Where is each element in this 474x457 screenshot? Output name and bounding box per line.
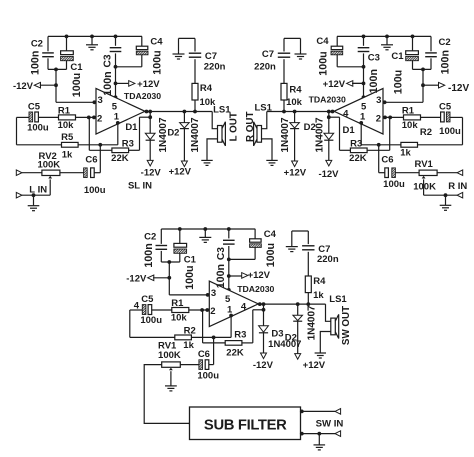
- svg-text:LS1: LS1: [329, 294, 347, 305]
- capacitor C5 right 100u input electrolytic: [421, 112, 451, 122]
- svg-text:3: 3: [211, 288, 216, 299]
- svg-text:R IN: R IN: [448, 181, 467, 192]
- power arrow +12V left: [129, 81, 135, 87]
- svg-text:1: 1: [360, 112, 366, 123]
- wire right R5 to pin1 column: [361, 123, 401, 145]
- svg-text:2: 2: [210, 306, 215, 317]
- junction SW IN upper: [300, 410, 304, 414]
- svg-text:C3: C3: [103, 54, 114, 67]
- svg-text:4: 4: [343, 108, 349, 119]
- svg-text:100u: 100u: [393, 70, 405, 94]
- svg-text:-12V: -12V: [126, 274, 147, 285]
- wire right feedback from output: [329, 112, 351, 151]
- junction sub R5/C6 node: [212, 336, 216, 340]
- svg-text:LS1: LS1: [254, 103, 272, 114]
- diode D1 right 1N4007 to -12V: [324, 117, 334, 166]
- input terminal right upper: [457, 170, 463, 176]
- ground SW IN: [318, 434, 320, 445]
- svg-text:C6: C6: [381, 154, 393, 165]
- capacitor C7 sub 220n with ground: [292, 231, 315, 276]
- junction right -12V tap: [421, 83, 425, 87]
- junction sub feedback node: [262, 308, 266, 312]
- svg-text:C5: C5: [28, 102, 41, 113]
- svg-text:100n: 100n: [102, 71, 114, 95]
- op-amp U left TDA2030 triangle: [96, 89, 145, 135]
- junction right diode D2 column: [293, 110, 297, 114]
- junction sub -12V tap: [167, 276, 171, 280]
- svg-text:TDA2030: TDA2030: [237, 284, 274, 294]
- svg-text:5: 5: [225, 294, 231, 305]
- ground right supply mid rail: [381, 36, 393, 49]
- svg-text:SW IN: SW IN: [316, 418, 344, 429]
- svg-text:100K: 100K: [413, 181, 436, 192]
- svg-text:TDA2030: TDA2030: [309, 95, 346, 105]
- wire right output node: [267, 111, 334, 113]
- input terminal left upper: [16, 170, 22, 176]
- capacitor C3 sub 100n: [223, 229, 235, 290]
- capacitor C2 left 100n: [42, 36, 54, 69]
- ground right C7: [295, 52, 307, 59]
- svg-text:3: 3: [98, 95, 103, 106]
- speaker LS1 right: [254, 112, 272, 161]
- svg-text:D1: D1: [343, 125, 356, 136]
- svg-text:C5: C5: [141, 294, 154, 305]
- wire left output node: [145, 111, 212, 113]
- terminal SW IN upper: [335, 409, 341, 415]
- svg-text:220n: 220n: [317, 254, 339, 265]
- wire sub positive rail top: [161, 228, 255, 230]
- svg-text:100n: 100n: [368, 69, 380, 93]
- junction sub pin2: [200, 308, 204, 312]
- wiper RV2 left: [48, 176, 52, 179]
- wire sub R5 to pin1 column: [191, 316, 231, 338]
- ground sub supply mid rail: [199, 229, 211, 242]
- svg-text:100K: 100K: [37, 160, 60, 171]
- svg-text:220n: 220n: [204, 61, 226, 72]
- wire right +12V branch: [351, 82, 364, 84]
- svg-text:100n: 100n: [143, 243, 155, 267]
- input terminal right lower: [457, 192, 463, 198]
- svg-text:4: 4: [134, 301, 140, 312]
- wire sub filter to RV1: [144, 365, 189, 424]
- junction left pin3 entry: [93, 100, 97, 104]
- svg-text:2: 2: [376, 113, 381, 124]
- svg-text:R4: R4: [200, 83, 213, 94]
- svg-text:-12V: -12V: [141, 168, 162, 179]
- svg-text:R4: R4: [289, 84, 302, 95]
- junction left input ground: [32, 193, 36, 197]
- svg-text:C2: C2: [31, 39, 43, 50]
- svg-text:D2: D2: [285, 332, 297, 343]
- diode D1 sub 1N4007 to -12V: [259, 310, 269, 359]
- junction sub C3/C4 join: [227, 258, 231, 262]
- svg-text:1N4007: 1N4007: [307, 305, 318, 340]
- svg-text:100u: 100u: [140, 315, 162, 326]
- svg-text:100K: 100K: [158, 350, 181, 361]
- svg-text:100u: 100u: [265, 243, 277, 267]
- svg-text:+12V: +12V: [169, 167, 192, 178]
- svg-text:1k: 1k: [62, 149, 73, 160]
- wire sub R3 to inverting input: [203, 310, 226, 343]
- wire left negative rail drop to pin3: [56, 69, 96, 102]
- svg-text:1k: 1k: [183, 340, 194, 351]
- svg-text:1N4007: 1N4007: [158, 117, 169, 152]
- junction sub C1 top rail: [178, 227, 182, 231]
- junction left pin1 on op-amp: [116, 121, 120, 125]
- svg-text:C3: C3: [368, 53, 380, 64]
- capacitor C1 left 100u electrolytic: [61, 36, 74, 69]
- svg-text:C6: C6: [85, 154, 97, 165]
- svg-text:100u: 100u: [439, 126, 461, 137]
- resistor R5 right 1k: [401, 142, 418, 147]
- junction sub filter output left: [189, 422, 193, 426]
- svg-text:3: 3: [376, 95, 381, 106]
- wire sub pin2 input: [189, 309, 210, 311]
- svg-text:R4: R4: [313, 276, 326, 287]
- wire sub feedback from output: [242, 304, 264, 343]
- junction left R4 bottom: [193, 110, 197, 114]
- potentiometer RV left 100K: [42, 170, 60, 175]
- junction right output at op-amp: [331, 110, 335, 114]
- junction right pin2: [388, 116, 392, 120]
- junction sub C2/C1 bottom: [167, 260, 171, 264]
- capacitor C7 right 220n with ground: [278, 38, 301, 83]
- svg-text:RV1: RV1: [415, 159, 434, 170]
- svg-text:R2: R2: [184, 325, 196, 336]
- wire sub negative rail drop to pin3: [169, 262, 209, 295]
- wire left positive rail top: [48, 35, 142, 37]
- svg-text:100u: 100u: [184, 265, 196, 289]
- svg-text:-12V: -12V: [448, 83, 469, 94]
- wire right negative rail drop to pin3: [384, 69, 424, 102]
- diode D2 left 1N4007 to +12V: [180, 112, 190, 167]
- capacitor C3 right 100n: [358, 36, 370, 97]
- junction right C3/C4 join: [362, 65, 366, 69]
- op-amp U right TDA2030 triangle: [334, 89, 383, 135]
- svg-text:100u: 100u: [84, 185, 106, 196]
- svg-text:C1: C1: [391, 51, 404, 62]
- resistor R1 left 10k: [59, 115, 76, 120]
- svg-text:-12V: -12V: [13, 81, 34, 92]
- capacitor C3 left 100n: [110, 36, 122, 97]
- potentiometer RV1 sub 100K: [162, 362, 181, 367]
- ground right input: [445, 195, 447, 205]
- junction left ground tap on rail: [90, 35, 94, 39]
- wire SW IN upper: [301, 410, 336, 412]
- svg-text:4: 4: [241, 301, 247, 312]
- junction sub R4 bottom: [306, 302, 310, 306]
- svg-text:10k: 10k: [58, 120, 75, 131]
- wiper RV1 right: [422, 176, 426, 179]
- resistor R3 left 22K: [112, 148, 129, 153]
- wire right C6 column: [379, 145, 385, 173]
- resistor R1 right 10k: [404, 115, 421, 120]
- svg-text:D1: D1: [125, 122, 138, 133]
- capacitor C2 sub 100n: [156, 229, 168, 262]
- svg-text:C4: C4: [264, 229, 277, 240]
- svg-text:R1: R1: [171, 298, 184, 309]
- wire sub output node: [258, 303, 325, 305]
- junction left output at op-amp: [145, 110, 149, 114]
- terminal SW IN lower: [335, 431, 341, 437]
- junction right ground tap on rail: [385, 35, 389, 39]
- svg-text:D2: D2: [167, 128, 179, 139]
- svg-text:SW OUT: SW OUT: [341, 306, 352, 345]
- resistor R3 sub 22K: [225, 341, 242, 346]
- capacitor C7 left 220n with ground: [179, 38, 202, 83]
- junction sub output at op-amp: [258, 302, 262, 306]
- wire left C5 loop to R5: [17, 117, 62, 144]
- svg-text:C5: C5: [439, 102, 452, 113]
- diode D2 right 1N4007 to +12V: [290, 112, 300, 167]
- junction right pin3 entry: [383, 100, 387, 104]
- svg-text:1: 1: [114, 112, 120, 123]
- op-amp U sub TDA2030 triangle: [209, 281, 258, 327]
- capacitor C2 right 100n: [425, 36, 437, 69]
- svg-text:+12V: +12V: [303, 360, 326, 371]
- svg-text:+12V: +12V: [248, 270, 271, 281]
- svg-text:SL IN: SL IN: [128, 181, 152, 192]
- svg-text:1N4007: 1N4007: [280, 117, 291, 152]
- svg-text:SUB FILTER: SUB FILTER: [204, 418, 287, 434]
- wire right positive rail top: [337, 35, 431, 37]
- wire left C6 column: [94, 145, 100, 173]
- svg-text:C6: C6: [198, 349, 210, 360]
- junction SW IN ground: [317, 432, 321, 436]
- junction right input ground: [444, 193, 448, 197]
- junction right pin1 on op-amp: [359, 121, 363, 125]
- svg-text:C3: C3: [216, 247, 227, 260]
- resistor R4 right: [281, 83, 287, 111]
- svg-text:L IN: L IN: [29, 184, 47, 195]
- svg-text:10k: 10k: [171, 313, 188, 324]
- svg-text:C2: C2: [144, 231, 156, 242]
- ground sub C7: [286, 245, 298, 252]
- junction right R5/C6 node: [377, 143, 381, 147]
- junction right C1 top rail: [411, 35, 415, 39]
- junction left C3 top rail: [114, 35, 118, 39]
- wire left feedback from output: [129, 112, 151, 151]
- junction sub pin3 entry: [206, 293, 210, 297]
- svg-text:22K: 22K: [349, 153, 367, 164]
- wire sub C5 loop to R5: [130, 310, 175, 337]
- capacitor C5 sub 100u input electrolytic: [142, 305, 172, 315]
- svg-text:R3: R3: [234, 330, 246, 341]
- svg-text:-12V: -12V: [253, 360, 274, 371]
- svg-text:220n: 220n: [254, 61, 276, 72]
- wire SW IN lower: [301, 433, 336, 435]
- capacitor C6 left 100u electrolytic: [60, 168, 94, 178]
- wire left R3 to inverting input: [89, 117, 112, 150]
- svg-text:100u: 100u: [383, 179, 405, 190]
- junction SW IN lower: [300, 432, 304, 436]
- capacitor C6 sub 100u electrolytic: [199, 337, 214, 369]
- svg-text:+12V: +12V: [284, 167, 307, 178]
- ground left C7: [173, 52, 185, 59]
- sub filter box: [190, 407, 301, 440]
- wire right C4 to C3 column: [337, 66, 363, 68]
- svg-text:R1: R1: [402, 106, 415, 117]
- capacitor C4 sub 100u electrolytic: [250, 229, 262, 259]
- resistor R4 left: [192, 83, 198, 111]
- capacitor C1 right 100u electrolytic: [406, 36, 419, 69]
- ground sub wiper: [165, 385, 177, 387]
- power arrow -12V left: [34, 82, 40, 88]
- svg-text:100u: 100u: [152, 50, 164, 74]
- svg-text:2: 2: [97, 113, 102, 124]
- svg-text:1k: 1k: [313, 290, 324, 301]
- junction left C3/C4 join: [114, 65, 118, 69]
- svg-text:100u: 100u: [71, 73, 83, 97]
- speaker LS1 sub: [320, 304, 338, 353]
- svg-text:1k: 1k: [400, 147, 411, 158]
- svg-text:100n: 100n: [30, 51, 42, 75]
- ground left input: [33, 195, 35, 205]
- junction left +12V tap: [114, 82, 118, 86]
- svg-text:5: 5: [112, 101, 118, 112]
- power arrow -12V sub: [148, 275, 154, 281]
- svg-text:1: 1: [227, 304, 233, 315]
- wire sub RV1 to C6: [180, 364, 199, 366]
- wire right C5 loop to R5: [418, 117, 463, 144]
- capacitor C5 left 100u input electrolytic: [29, 112, 59, 122]
- junction left R5/C6 node: [98, 143, 102, 147]
- junction left C1 top rail: [65, 35, 69, 39]
- junction left diode D2 column: [183, 110, 187, 114]
- junction right C3 top rail: [362, 35, 366, 39]
- speaker LS1 left: [207, 112, 225, 161]
- wire left +12V branch: [116, 82, 129, 84]
- ground sub speaker: [315, 353, 326, 358]
- svg-text:22K: 22K: [226, 347, 244, 358]
- resistor R1 sub 10k: [172, 308, 189, 313]
- svg-text:C1: C1: [70, 62, 83, 73]
- svg-text:100u: 100u: [27, 123, 49, 134]
- junction right +12V tap: [362, 82, 366, 86]
- junction right feedback node: [327, 115, 331, 119]
- svg-text:R1: R1: [58, 106, 71, 117]
- svg-text:C4: C4: [150, 36, 163, 47]
- svg-text:100u: 100u: [197, 370, 219, 381]
- wire right C2/C1 bottom join: [413, 68, 432, 70]
- junction sub diode D2 column: [296, 302, 300, 306]
- junction sub pin5 on op-amp: [227, 288, 231, 292]
- capacitor C4 right 100u electrolytic: [331, 36, 343, 66]
- svg-text:R3: R3: [350, 138, 362, 149]
- junction left C2/C1 bottom: [54, 68, 58, 72]
- svg-text:-12V: -12V: [318, 169, 339, 180]
- junction sub ground tap on rail: [203, 227, 207, 231]
- wire sub +12V branch: [229, 275, 242, 277]
- svg-text:5: 5: [361, 101, 367, 112]
- junction left pin5 on op-amp: [114, 95, 118, 99]
- junction sub +12V tap: [227, 274, 231, 278]
- junction right R4 bottom: [282, 110, 286, 114]
- wire left C4 to C3 column: [116, 66, 142, 68]
- svg-text:10k: 10k: [286, 97, 303, 108]
- svg-text:C2: C2: [439, 37, 451, 48]
- junction left -12V tap: [54, 83, 58, 87]
- diode D1 left 1N4007 to -12V: [145, 117, 155, 166]
- ground left speaker: [201, 160, 212, 165]
- svg-text:C7: C7: [262, 49, 274, 60]
- svg-text:10k: 10k: [402, 120, 419, 131]
- svg-text:R3: R3: [122, 139, 134, 150]
- power arrow +12V right: [347, 81, 353, 87]
- ground left supply mid rail: [86, 36, 98, 49]
- svg-text:C4: C4: [316, 36, 329, 47]
- wire sub C2/C1 bottom join: [161, 261, 180, 263]
- svg-text:1N4007: 1N4007: [314, 117, 325, 152]
- svg-text:+12V: +12V: [323, 79, 346, 90]
- svg-text:R5: R5: [61, 132, 74, 143]
- svg-text:22K: 22K: [111, 153, 129, 164]
- wire left pin2 input: [76, 116, 97, 118]
- capacitor C1 sub 100u electrolytic: [174, 229, 187, 262]
- svg-text:100n: 100n: [440, 50, 452, 74]
- capacitor C6 right 100u electrolytic: [385, 168, 419, 178]
- resistor R5 left 1k: [62, 142, 79, 147]
- wire right R3 to inverting input: [367, 117, 390, 150]
- ground right speaker: [266, 160, 277, 165]
- resistor R5 sub 1k: [175, 335, 192, 340]
- wire right pin2 input: [383, 116, 404, 118]
- svg-text:C1: C1: [184, 255, 197, 266]
- power arrow -12V right: [439, 82, 445, 88]
- capacitor C4 left 100u electrolytic: [136, 36, 148, 66]
- svg-text:L OUT: L OUT: [229, 112, 240, 141]
- junction sub C3 top rail: [227, 227, 231, 231]
- junction right C2/C1 bottom: [421, 68, 425, 72]
- svg-text:1N4007: 1N4007: [190, 117, 201, 152]
- wire left R5 to pin1 column: [78, 123, 118, 145]
- junction sub pin1 on op-amp: [229, 314, 233, 318]
- wiper RV1 sub: [169, 368, 173, 371]
- junction left feedback node: [148, 115, 152, 119]
- resistor R4 sub: [305, 276, 311, 304]
- diode D2 sub 1N4007 to +12V: [293, 304, 303, 359]
- potentiometer RV right 100K: [419, 170, 437, 175]
- svg-text:100n: 100n: [215, 264, 227, 288]
- input terminal left lower: [16, 192, 22, 198]
- resistor R3 right 22K: [350, 148, 367, 153]
- power arrow +12V sub: [242, 273, 248, 279]
- svg-text:100u: 100u: [318, 51, 330, 75]
- wire left C2/C1 bottom join: [48, 68, 67, 70]
- wire sub C4 to C3 column: [229, 258, 255, 260]
- svg-text:+12V: +12V: [137, 79, 160, 90]
- svg-text:R2: R2: [420, 127, 432, 138]
- junction right pin5 on op-amp: [362, 95, 366, 99]
- svg-text:TDA2030: TDA2030: [124, 91, 161, 101]
- junction left pin2: [87, 116, 91, 120]
- svg-text:R OUT: R OUT: [245, 112, 256, 142]
